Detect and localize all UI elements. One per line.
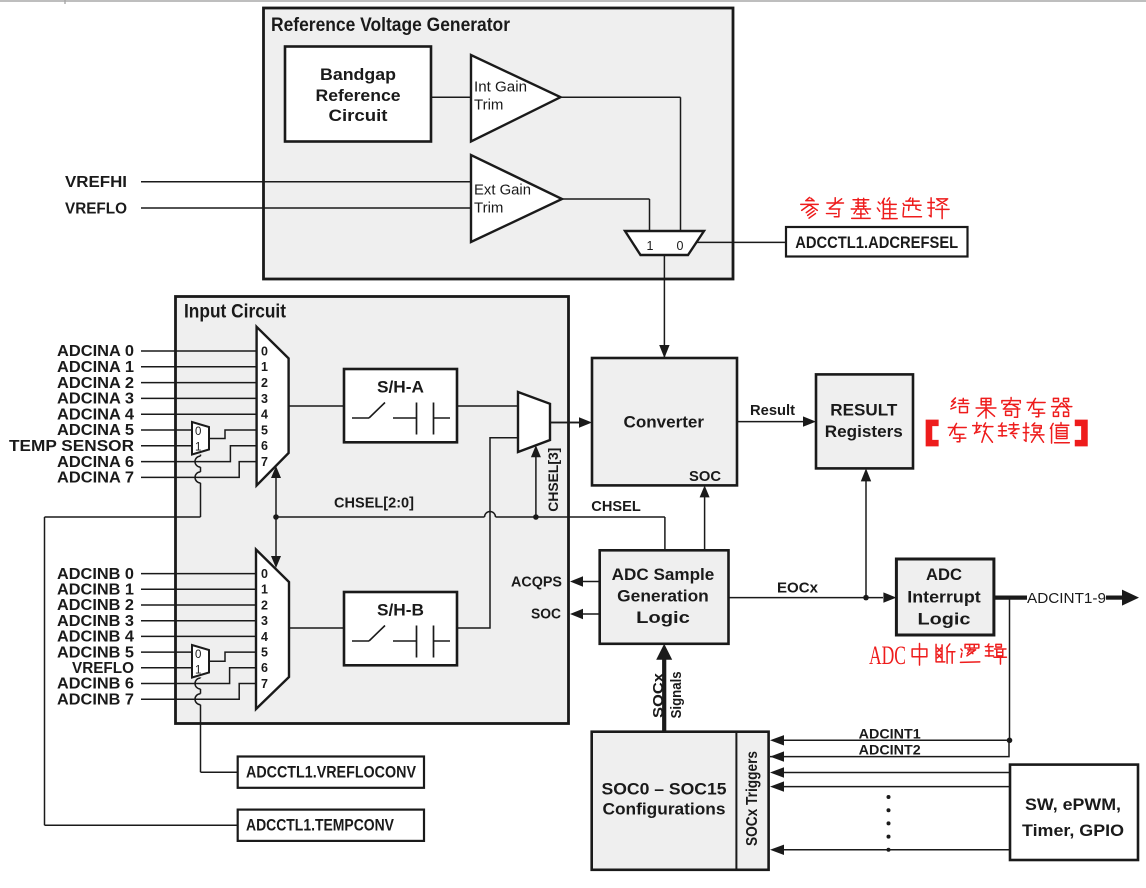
svg-text:ADCINB 4: ADCINB 4 [57, 629, 134, 646]
svg-text:ADCINB 5: ADCINB 5 [57, 644, 134, 661]
svg-text:Timer, GPIO: Timer, GPIO [1022, 821, 1124, 840]
svg-text:ADCINB 1: ADCINB 1 [57, 582, 134, 599]
svg-text:S/H-B: S/H-B [377, 601, 424, 620]
svg-text:ADCINA 7: ADCINA 7 [57, 470, 134, 487]
svg-text:ADCINB 2: ADCINB 2 [57, 597, 134, 614]
svg-text:ADCINT1: ADCINT1 [859, 725, 921, 741]
svg-text:CHSEL[2:0]: CHSEL[2:0] [334, 495, 414, 512]
svg-text:SOC: SOC [531, 607, 562, 623]
svg-text:ADCINT1-9: ADCINT1-9 [1027, 590, 1106, 607]
svg-text:6: 6 [261, 661, 268, 675]
svg-text:SOCx Triggers: SOCx Triggers [744, 751, 761, 846]
svg-text:Reference Voltage Generator: Reference Voltage Generator [271, 15, 511, 36]
svg-text:EOCx: EOCx [777, 580, 819, 597]
svg-text:3: 3 [261, 392, 268, 406]
svg-text:Bandgap: Bandgap [320, 65, 396, 84]
svg-text:7: 7 [261, 455, 268, 469]
svg-text:ADCINB 6: ADCINB 6 [57, 676, 134, 693]
svg-text:0: 0 [261, 344, 268, 358]
svg-text:Interrupt: Interrupt [907, 588, 981, 607]
svg-text:0: 0 [195, 426, 201, 438]
svg-text:Configurations: Configurations [603, 800, 726, 819]
svg-text:SOC: SOC [689, 468, 721, 485]
svg-text:ADCCTL1.ADCREFSEL: ADCCTL1.ADCREFSEL [795, 233, 958, 252]
svg-text:1: 1 [261, 583, 268, 597]
svg-text:ADCCTL1.VREFLOCONV: ADCCTL1.VREFLOCONV [246, 763, 417, 782]
svg-text:2: 2 [261, 376, 268, 390]
svg-text:0: 0 [677, 239, 684, 253]
svg-text:Signals: Signals [669, 671, 685, 718]
svg-text:TEMP SENSOR: TEMP SENSOR [9, 438, 134, 455]
svg-text:CHSEL[3]: CHSEL[3] [545, 448, 561, 512]
svg-text:3: 3 [261, 614, 268, 628]
svg-text:7: 7 [261, 677, 268, 691]
svg-text:ADCCTL1.TEMPCONV: ADCCTL1.TEMPCONV [246, 816, 395, 835]
svg-text:VREFLO: VREFLO [72, 660, 134, 677]
svg-text:ADC: ADC [926, 565, 962, 584]
svg-text:RESULT: RESULT [830, 401, 898, 420]
svg-text:ADCINA 4: ADCINA 4 [57, 406, 134, 423]
svg-text:ADC Sample: ADC Sample [612, 565, 715, 584]
svg-text:2: 2 [261, 598, 268, 612]
svg-text:ADCINA 3: ADCINA 3 [57, 391, 134, 408]
svg-text:ADCINB 7: ADCINB 7 [57, 691, 134, 708]
svg-text:0: 0 [261, 567, 268, 581]
svg-text:VREFHI: VREFHI [65, 174, 127, 191]
svg-text:Circuit: Circuit [329, 106, 388, 125]
svg-text:S/H-A: S/H-A [377, 378, 424, 397]
svg-text:4: 4 [261, 630, 268, 644]
svg-text:SOC0 – SOC15: SOC0 – SOC15 [602, 780, 727, 799]
svg-text:ADCINB 3: ADCINB 3 [57, 613, 134, 630]
svg-text:Int Gain: Int Gain [474, 79, 527, 96]
svg-text:Registers: Registers [825, 422, 903, 441]
svg-text:1: 1 [195, 665, 201, 677]
svg-text:0: 0 [195, 649, 201, 661]
svg-text:Trim: Trim [474, 200, 503, 217]
svg-text:ADCINA 6: ADCINA 6 [57, 454, 134, 471]
svg-text:Generation: Generation [617, 587, 709, 606]
svg-text:1: 1 [647, 239, 654, 253]
svg-text:CHSEL: CHSEL [591, 499, 641, 515]
svg-text:Logic: Logic [636, 608, 690, 627]
svg-text:ADCINT2: ADCINT2 [859, 742, 921, 758]
svg-text:ADC: ADC [869, 641, 906, 670]
svg-text:Trim: Trim [474, 97, 503, 114]
svg-text:Ext Gain: Ext Gain [474, 182, 531, 199]
svg-text:Input Circuit: Input Circuit [184, 302, 287, 323]
svg-text:ACQPS: ACQPS [511, 575, 562, 591]
svg-text:4: 4 [261, 408, 268, 422]
svg-text:ADCINB 0: ADCINB 0 [57, 566, 134, 583]
svg-text:Logic: Logic [918, 610, 971, 629]
svg-text:SOCx: SOCx [650, 672, 667, 718]
svg-text:6: 6 [261, 439, 268, 453]
svg-text:1: 1 [195, 442, 201, 454]
svg-text:5: 5 [261, 646, 268, 660]
svg-text:SW, ePWM,: SW, ePWM, [1025, 795, 1121, 814]
svg-text:ADCINA 5: ADCINA 5 [57, 422, 134, 439]
svg-text:VREFLO: VREFLO [65, 201, 127, 218]
svg-text:ADCINA 0: ADCINA 0 [57, 343, 134, 360]
svg-text:1: 1 [261, 360, 268, 374]
svg-text:5: 5 [261, 423, 268, 437]
svg-text:Converter: Converter [624, 413, 705, 432]
svg-text:Reference: Reference [316, 86, 401, 105]
svg-text:Result: Result [750, 403, 795, 419]
svg-text:ADCINA 1: ADCINA 1 [57, 359, 134, 376]
svg-text:ADCINA 2: ADCINA 2 [57, 375, 134, 392]
